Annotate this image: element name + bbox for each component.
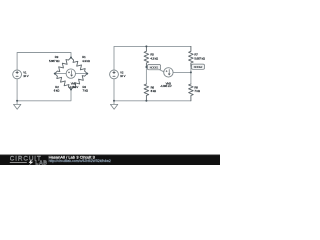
voltage source V2 <box>110 70 119 79</box>
resistor R1 (bridge top-right arm) <box>71 58 87 74</box>
wire left node to voltmeter VM1 <box>55 73 66 75</box>
resistor R6 <box>144 84 149 101</box>
svg-text:10 V: 10 V <box>120 74 126 78</box>
wire voltmeter VM3 to right branch <box>173 71 191 73</box>
svg-text:http://circuitlab.com/c/6JN62W: http://circuitlab.com/c/6JN62W52kfh4w2 <box>49 159 111 163</box>
node: bridge right junction <box>86 73 88 75</box>
wire bottom rail (right circuit) <box>114 79 191 105</box>
resistor R4 (bridge bottom-right arm) <box>71 74 87 90</box>
node: bridge apex junction <box>70 57 72 59</box>
resistor R5 <box>144 46 149 67</box>
wire V2 top rail <box>114 46 191 70</box>
wire NODE1 to voltmeter VM3 <box>146 67 163 72</box>
svg-text:7 kΩ: 7 kΩ <box>194 89 199 93</box>
wire V1 bottom to ground <box>16 79 18 105</box>
node: V1 ground junction <box>16 100 18 102</box>
node: VM3 right branch junction <box>190 71 192 73</box>
svg-text:5.667 kΩ: 5.667 kΩ <box>49 59 59 63</box>
svg-text:VM1: VM1 <box>71 82 77 86</box>
svg-text:4.3 kΩ: 4.3 kΩ <box>150 56 158 60</box>
resistor R8 <box>189 84 194 101</box>
resistor R7 <box>189 46 194 67</box>
svg-text:LAB: LAB <box>35 161 47 165</box>
svg-text:5.667 kΩ: 5.667 kΩ <box>194 56 204 60</box>
svg-text:7 kΩ: 7 kΩ <box>83 89 88 93</box>
svg-text:NODE1: NODE1 <box>150 66 159 70</box>
svg-text:6 kΩ: 6 kΩ <box>151 89 156 93</box>
net flag NODE1 <box>147 65 160 70</box>
footer bar <box>0 154 220 165</box>
wire bridge bottom to V1 bottom rail <box>17 90 71 101</box>
svg-text:NODE2: NODE2 <box>194 65 203 69</box>
resistor R3 (bridge top-left arm) <box>55 58 71 74</box>
wire left branch mid <box>145 67 147 84</box>
ground (right circuit) <box>110 104 117 109</box>
node: NODE1 attach junction <box>145 66 147 68</box>
svg-text:-4.095 mV: -4.095 mV <box>160 84 172 88</box>
ground (left circuit) <box>14 104 21 109</box>
CircuitLab logo <box>10 155 48 166</box>
resistor R2 (bridge bottom-left arm) <box>55 74 71 90</box>
svg-text:-1.052 V: -1.052 V <box>69 85 79 89</box>
wire voltmeter VM1 to right node <box>75 73 87 75</box>
net flag NODE2 <box>192 64 205 69</box>
wire right branch mid <box>190 67 192 84</box>
svg-text:10 V: 10 V <box>23 74 29 78</box>
svg-text:6 kΩ: 6 kΩ <box>54 89 59 93</box>
node: top rail / left branch junction <box>145 45 147 47</box>
voltage source V1 <box>13 70 22 79</box>
svg-text:4.3 kΩ: 4.3 kΩ <box>82 59 90 63</box>
wire V1 top to bridge apex <box>17 53 71 71</box>
node: V2 ground junction <box>113 100 115 102</box>
node: bridge left junction <box>54 73 56 75</box>
node: bridge bottom junction <box>70 89 72 91</box>
voltmeter VM1 <box>66 69 75 78</box>
node: bottom rail / left branch junction <box>145 100 147 102</box>
voltmeter VM3 <box>164 68 173 77</box>
